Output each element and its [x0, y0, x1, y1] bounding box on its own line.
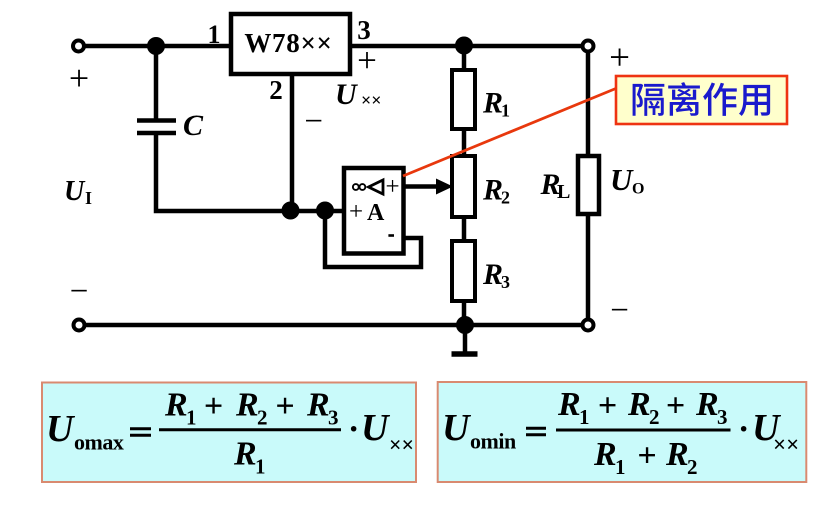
capacitor C plates: [137, 121, 176, 134]
svg-text:R: R: [482, 174, 503, 207]
svg-text:R: R: [695, 386, 719, 423]
svg-text:+: +: [598, 388, 617, 425]
svg-text:L: L: [557, 181, 570, 203]
svg-text:+: +: [609, 38, 630, 79]
resistor R2: [452, 156, 475, 217]
terminal input +: [73, 41, 84, 52]
svg-text:R: R: [665, 436, 689, 473]
terminal input -: [74, 320, 85, 331]
svg-text:R: R: [233, 436, 257, 473]
formula box Uomax: [42, 383, 416, 483]
wire R3 bottom stub: [462, 299, 467, 325]
svg-text:××: ××: [389, 432, 414, 457]
wire input rail to regulator pin 1: [85, 44, 231, 49]
op-amp infinity symbol: [353, 184, 359, 190]
svg-text:U: U: [64, 176, 86, 207]
svg-text:+: +: [385, 174, 399, 201]
svg-text:R: R: [627, 386, 651, 423]
formula Uomin denominator R1+R2: [593, 436, 698, 479]
svg-text:−: −: [70, 274, 89, 310]
terminal output -: [583, 320, 594, 331]
resistor R1: [452, 70, 475, 129]
svg-text:1: 1: [579, 405, 590, 429]
svg-text:××: ××: [773, 432, 799, 457]
svg-text:1: 1: [615, 455, 626, 479]
formula Uomin numerator R1+R2+R3: [557, 386, 728, 429]
svg-text:omax: omax: [74, 430, 124, 455]
formula Uomax numerator R1+R2+R3: [164, 387, 339, 430]
resistor R3: [452, 241, 475, 301]
wire op-amp feedback loop: [325, 213, 421, 267]
svg-text:U: U: [442, 407, 472, 449]
svg-text:+: +: [69, 58, 89, 98]
svg-text:+: +: [357, 41, 377, 80]
ground bar: [452, 351, 478, 357]
wire pin 3 output rail: [350, 44, 582, 49]
wire capacitor top leg: [154, 46, 159, 119]
svg-text:1: 1: [255, 455, 266, 479]
formula Uomax fraction bar: [159, 428, 341, 431]
formula Uomin fraction bar: [556, 429, 731, 432]
svg-text:+: +: [204, 388, 223, 425]
svg-text:omin: omin: [470, 429, 516, 454]
wire RL top: [586, 52, 591, 156]
svg-text:+: +: [349, 199, 363, 226]
regulator U W78xx box: [231, 14, 350, 74]
wire RL bottom: [586, 214, 591, 319]
node pin2 junction: [282, 202, 300, 220]
formula box Uomin: [438, 382, 807, 482]
wire capacitor bottom leg to node rail: [156, 135, 344, 211]
formula Uomax equals sign: [130, 427, 151, 430]
svg-text:·: ·: [348, 411, 359, 448]
svg-text:R: R: [306, 387, 330, 424]
svg-text:2: 2: [501, 188, 510, 208]
svg-text:U: U: [361, 407, 391, 449]
resistor RL: [578, 156, 599, 214]
svg-text:U: U: [335, 78, 358, 111]
node bottom junction: [456, 316, 474, 334]
svg-text:+: +: [275, 388, 294, 425]
formula Uomin equals sign: [526, 427, 546, 430]
svg-text:R: R: [557, 386, 581, 423]
svg-text:2: 2: [687, 455, 698, 479]
svg-text:3: 3: [328, 406, 339, 430]
svg-text:+: +: [637, 438, 656, 475]
svg-text:2: 2: [257, 406, 268, 430]
svg-text:3: 3: [501, 272, 510, 292]
svg-text:A: A: [367, 200, 385, 226]
svg-text:+: +: [666, 388, 685, 425]
svg-text:O: O: [632, 181, 644, 198]
svg-text:2: 2: [649, 405, 660, 429]
svg-text:2: 2: [269, 75, 283, 105]
svg-text:U: U: [46, 408, 76, 450]
svg-text:1: 1: [208, 20, 221, 49]
svg-text:R: R: [482, 87, 503, 120]
svg-text:R: R: [593, 436, 617, 473]
svg-text:−: −: [610, 293, 629, 329]
wire R1 top stub: [462, 46, 467, 72]
op-amp minus (output): [388, 234, 394, 237]
svg-text:·: ·: [738, 411, 749, 448]
op-amp A box: [344, 168, 404, 254]
wire regulator pin 2: [290, 74, 295, 211]
svg-text:C: C: [183, 109, 204, 142]
svg-text:I: I: [85, 188, 92, 208]
svg-text:1: 1: [186, 406, 197, 430]
ground stub: [463, 325, 468, 352]
op-amp triangle: [369, 180, 384, 194]
svg-text:−: −: [304, 104, 323, 140]
arrow op-amp output to R2 wiper: [404, 184, 438, 189]
wire R2-R3 stub: [462, 215, 467, 243]
node input junction: [147, 37, 165, 55]
svg-text:U: U: [610, 162, 634, 197]
terminal output +: [583, 41, 594, 52]
svg-text:W78××: W78××: [244, 28, 332, 58]
wire R1-R2 stub: [462, 127, 467, 158]
callout text "ge li zuo yong" (isolation effect): [633, 82, 771, 116]
callout box: [616, 76, 787, 124]
svg-text:R: R: [235, 387, 259, 424]
node feedback junction: [316, 202, 334, 220]
wire bottom rail: [86, 323, 581, 328]
node output junction: [455, 37, 473, 55]
svg-text:R: R: [164, 387, 188, 424]
svg-text:1: 1: [501, 101, 510, 121]
svg-text:3: 3: [717, 405, 728, 429]
red callout leader line: [403, 88, 617, 176]
svg-text:××: ××: [361, 90, 382, 110]
svg-text:R: R: [482, 258, 503, 291]
